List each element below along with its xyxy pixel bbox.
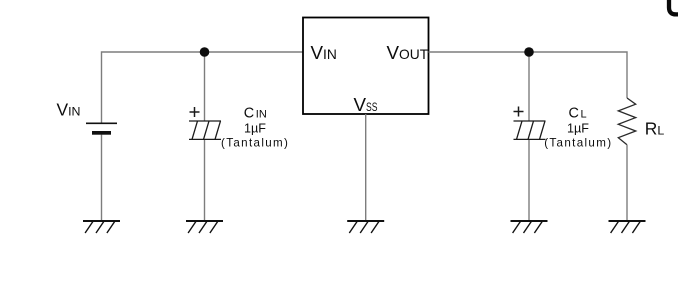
ground (VSS) <box>347 221 384 233</box>
svg-text:1µF: 1µF <box>244 121 266 135</box>
svg-text:1µF: 1µF <box>567 121 589 135</box>
wire <box>429 52 628 98</box>
wire <box>204 52 206 121</box>
polarity plus sign CL <box>514 107 524 117</box>
svg-text:RL: RL <box>645 119 665 139</box>
wire <box>528 52 530 121</box>
wire <box>101 135 103 221</box>
ground (CL) <box>511 221 548 233</box>
svg-text:(Tantalum): (Tantalum) <box>544 137 612 150</box>
ground (CIN) <box>186 221 223 233</box>
node junction at CL <box>524 47 534 57</box>
battery VIN <box>86 123 117 134</box>
capacitor CL <box>514 121 546 139</box>
wire <box>365 114 367 221</box>
node junction at CIN <box>200 47 210 57</box>
svg-text:(Tantalum): (Tantalum) <box>221 137 289 150</box>
wire <box>626 145 628 221</box>
partial letter glyph top-right corner <box>669 0 678 14</box>
wire <box>204 139 206 221</box>
ground (battery) <box>83 221 120 233</box>
svg-text:CL: CL <box>569 106 587 122</box>
ground (RL) <box>609 221 646 233</box>
wire <box>102 52 304 123</box>
svg-text:VIN: VIN <box>57 100 81 120</box>
svg-text:CIN: CIN <box>244 106 267 122</box>
polarity plus sign CIN <box>190 107 200 117</box>
capacitor CIN <box>189 121 221 139</box>
wire <box>528 139 530 221</box>
resistor RL <box>618 98 635 145</box>
op-amp U1 regulator box <box>303 18 429 115</box>
